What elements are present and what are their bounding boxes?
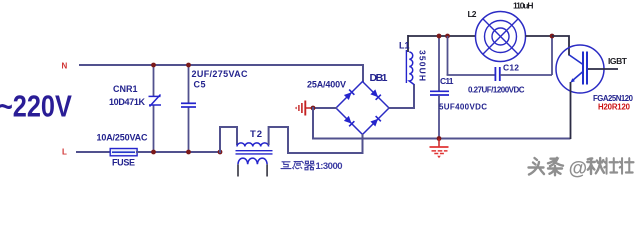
node N [62, 62, 68, 71]
svg-text:2UF/275VAC: 2UF/275VAC [192, 69, 249, 79]
fuse FUSE [110, 149, 137, 156]
wire L1 top lead [407, 35, 409, 52]
diode D-bottomright of DB1 [370, 116, 381, 127]
label L1 [399, 41, 410, 51]
svg-text:C11: C11 [440, 76, 454, 86]
wire bridge minus to junction [312, 107, 337, 109]
label DB1 [370, 72, 388, 84]
transformer T2 core [236, 151, 273, 154]
wire T2 primary right to bridge AC2 [269, 127, 362, 153]
label T2 [250, 129, 262, 140]
junction C12 branch top [445, 34, 450, 39]
wire C11 branch lower [438, 95, 440, 139]
earth ground symbol [430, 147, 449, 158]
label CNR1 [113, 84, 138, 94]
wire L to T2 primary left [220, 127, 237, 153]
wire C5 branch upper [188, 64, 190, 103]
svg-text:10A/250VAC: 10A/250VAC [97, 133, 149, 143]
label FGA25N120 [593, 94, 634, 103]
wire IGBT emitter lead [570, 82, 572, 139]
svg-text:C5: C5 [194, 80, 206, 90]
svg-text:~220V: ~220V [0, 89, 72, 123]
svg-text:IGBT: IGBT [608, 56, 628, 66]
wire varistor branch upper [153, 64, 155, 96]
label 1:3000 [316, 161, 343, 172]
AC source label ~220V [0, 89, 72, 123]
varistor CNR1 [149, 95, 162, 107]
wire collector lead [552, 36, 569, 56]
watermark gray layer: tou tiao @ qiu zhuang zhuang [529, 158, 634, 176]
label 25A/400V [307, 80, 346, 90]
inductor L1 winding [409, 52, 414, 85]
junction C11 top [437, 34, 442, 39]
node L [62, 148, 67, 157]
chassis ground symbol [295, 101, 305, 116]
svg-text:110uH: 110uH [513, 1, 534, 11]
wire C12 branch left vertical [447, 36, 449, 75]
junction earth node [437, 136, 442, 141]
wire T2 secondary leg left [237, 164, 239, 176]
junction varistor bottom [151, 150, 156, 155]
induction coil L2 [476, 12, 526, 62]
transformer T2 secondary winding [238, 158, 267, 164]
junction C5 top [186, 63, 191, 68]
label 0.27UF/1200VDC [468, 86, 525, 95]
capacitor C5 [181, 103, 196, 107]
label FUSE [112, 158, 135, 168]
wire bridge plus to L1 [389, 84, 415, 108]
label 5UF400VDC [439, 103, 487, 112]
svg-text:@: @ [569, 159, 588, 180]
label 2UF/275VAC [192, 69, 249, 79]
svg-text:1:3000: 1:3000 [316, 161, 343, 172]
svg-text:T2: T2 [250, 129, 262, 140]
wire L bottom rail right [136, 151, 220, 153]
svg-text:L2: L2 [468, 9, 477, 19]
svg-text:25A/400V: 25A/400V [307, 80, 346, 90]
wire IGBT gate lead [588, 68, 618, 70]
wire N top rail [79, 64, 363, 66]
capacitor C12 [495, 67, 499, 81]
svg-text:H20R120: H20R120 [598, 103, 631, 112]
bridge rectifier DB1 frame [336, 82, 389, 135]
svg-text:CNR1: CNR1 [113, 84, 138, 94]
wire C12 branch left horizontal [447, 74, 495, 76]
svg-text:350UH: 350UH [418, 50, 428, 81]
wire L bottom rail left [76, 151, 111, 153]
svg-text:N: N [62, 62, 68, 71]
label C5 [194, 80, 206, 90]
label 110uH [513, 1, 534, 11]
junction varistor top [151, 63, 156, 68]
chassis ground stub (red) [306, 107, 314, 109]
earth ground stub [438, 139, 440, 148]
IGBT body circle [556, 45, 604, 93]
label 10A/250VAC [97, 133, 149, 143]
wire DC minus bus [313, 107, 571, 139]
svg-text:L: L [62, 148, 67, 157]
diode D-topright of DB1 [370, 89, 381, 100]
svg-text:FUSE: FUSE [112, 158, 135, 168]
wire C12 branch right horizontal [500, 74, 552, 76]
watermark white emboss layer [530, 159, 635, 177]
wire C5 branch lower [188, 107, 190, 153]
junction L-wire to T2 [218, 150, 223, 155]
wire top DC rail [408, 35, 476, 37]
svg-text:L1: L1 [399, 41, 410, 51]
capacitor C11 [430, 91, 449, 95]
label 10D471K [109, 97, 146, 107]
label C12 [503, 63, 519, 73]
label CT ratio (hu gan qi) 1:3000 [281, 161, 314, 170]
wire bridge bottom vertical [362, 134, 364, 154]
junction DC-minus node [311, 106, 316, 111]
svg-text:DB1: DB1 [370, 72, 388, 84]
inductor L1 core line [405, 50, 407, 83]
junction C5 bottom [186, 150, 191, 155]
wire T2 secondary leg right [266, 164, 268, 176]
junction collector node [550, 34, 555, 39]
label L2 [468, 9, 477, 19]
wire varistor branch lower [153, 105, 155, 153]
wire bridge top vertical [362, 64, 364, 82]
IGBT internal structure [569, 52, 587, 85]
label C11 [440, 76, 454, 86]
label 350UH rotated [418, 50, 428, 81]
label H20R120 [598, 103, 631, 112]
svg-text:C12: C12 [503, 63, 519, 73]
wire C11 branch upper [438, 36, 440, 91]
label IGBT [608, 56, 628, 66]
wire rail L2 right to collector node [526, 35, 553, 37]
svg-text:0.27UF/1200VDC: 0.27UF/1200VDC [468, 86, 525, 95]
diode D-topleft of DB1 [344, 90, 355, 101]
diode D-bottomleft of DB1 [344, 116, 355, 127]
wire C12 branch right vertical [551, 35, 553, 75]
svg-text:5UF400VDC: 5UF400VDC [439, 103, 487, 112]
transformer T2 primary winding [237, 143, 269, 147]
svg-text:10D471K: 10D471K [109, 97, 146, 107]
